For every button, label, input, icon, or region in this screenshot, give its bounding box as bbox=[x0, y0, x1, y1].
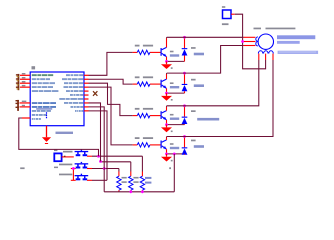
transistor Q1 labels bbox=[170, 51, 179, 57]
wire net SW1 bbox=[92, 155, 142, 157]
motor M1 left coil arcs bbox=[256, 37, 258, 46]
junction rail D3 bbox=[183, 104, 186, 107]
ground below IC bbox=[42, 126, 51, 144]
resistor R4 pin stubs bbox=[133, 144, 161, 146]
wire base route Q4 bbox=[89, 87, 133, 145]
diode D2 top stub bbox=[184, 73, 186, 84]
ground at Q1 emitter bbox=[161, 61, 172, 69]
IC U1 body bbox=[30, 72, 84, 126]
junction Q4 emitter bbox=[165, 153, 168, 156]
ground at Q3 emitter bbox=[161, 125, 172, 133]
wire emitter-diode Q3 bbox=[167, 124, 185, 126]
button SW2 bbox=[75, 162, 89, 169]
resistor R2 pin stubs bbox=[133, 83, 161, 85]
IC U1 left pin 3 bbox=[20, 82, 30, 84]
diode D1 bbox=[182, 48, 188, 55]
IC U1 left pin 2 bbox=[20, 78, 30, 80]
button SW1 right stub bbox=[87, 155, 92, 157]
wire collector Q1 bbox=[166, 37, 168, 47]
terminal input box bbox=[54, 153, 61, 161]
diode D4 bbox=[182, 147, 188, 154]
button SW2 stubs bbox=[71, 168, 92, 170]
connector J1 labels bbox=[22, 73, 26, 86]
motor M1 text block bbox=[277, 35, 318, 54]
resistor R2 bbox=[137, 82, 150, 86]
transistor Q4 bbox=[161, 140, 167, 149]
resistor R5 labels bbox=[122, 177, 127, 183]
label near ground Q3 bbox=[171, 131, 173, 133]
wire base route Q2 bbox=[89, 79, 133, 84]
resistor R7 bbox=[140, 176, 144, 190]
diode D4 bottom stub bbox=[184, 153, 186, 156]
resistor R7 bottom stub bbox=[141, 190, 143, 192]
resistor R4 bbox=[137, 143, 150, 147]
resistor R1 pin stubs bbox=[133, 51, 161, 53]
junction rail D1 bbox=[183, 36, 186, 39]
IC U1 right pin-name text bbox=[59, 74, 83, 112]
wire to resistor R5 top bbox=[118, 169, 120, 177]
wire emitter-diode Q2 bbox=[167, 92, 185, 94]
wire emitter Q1 bbox=[166, 57, 168, 62]
wire IC pin to net mid bbox=[89, 103, 101, 161]
button SW3 label bbox=[59, 174, 72, 176]
junction Q1 emitter bbox=[165, 60, 168, 63]
IC U1 reference label bbox=[32, 66, 36, 69]
junction Q2 emitter bbox=[165, 92, 168, 95]
terminal VCC labels bbox=[222, 6, 229, 25]
transistor Q1 bbox=[161, 47, 167, 56]
diode D3 labels bbox=[191, 110, 219, 120]
ground at Q2 emitter bbox=[161, 93, 172, 101]
transistor Q3 bbox=[161, 111, 167, 120]
terminal VCC bbox=[223, 10, 232, 19]
net label below IC bbox=[56, 132, 74, 134]
wire rail Q3 to motor pin C bbox=[167, 54, 259, 106]
IC U1 left pin 4 bbox=[20, 86, 30, 88]
wire emitter-diode Q1 bbox=[167, 60, 185, 62]
button SW2 label bbox=[59, 164, 72, 166]
motor M1 bottom coil arcs bbox=[258, 51, 273, 54]
junction Q4 emitter-rail bbox=[173, 153, 176, 156]
wire ground rail bbox=[104, 191, 174, 193]
resistor R5 bbox=[117, 176, 121, 190]
terminal input labels bbox=[54, 150, 58, 169]
diode D2 labels bbox=[191, 79, 204, 87]
wire Q4 emitter to ground rail bbox=[173, 154, 175, 192]
wire net SW2 bbox=[92, 168, 119, 170]
junction net mid bbox=[99, 160, 102, 163]
diode D1 top stub bbox=[184, 37, 186, 48]
diode D1 labels bbox=[191, 47, 204, 55]
wire to resistor R7 top bbox=[141, 156, 143, 176]
wire collector Q3 bbox=[166, 106, 168, 111]
wire rail Q4 to motor pin D bbox=[167, 54, 273, 137]
diode D3 top stub bbox=[184, 106, 186, 117]
IC U1 left pin osc1 bbox=[20, 102, 31, 104]
resistor R3 pin stubs bbox=[133, 115, 161, 117]
motor M1 labels bbox=[254, 28, 296, 30]
wire net mid bbox=[101, 161, 131, 163]
diode D3 bottom stub bbox=[184, 123, 186, 126]
connector J2 labels bbox=[22, 101, 27, 107]
transistor Q2 labels bbox=[170, 82, 179, 88]
junction VCC motor common bbox=[241, 40, 244, 43]
junction rail R6 bbox=[129, 190, 132, 193]
wire emitter-diode Q4 bbox=[167, 153, 185, 155]
resistor R6 bottom stub bbox=[130, 190, 132, 192]
IC U1 right pin 2 bbox=[84, 78, 89, 80]
IC U1 right pin 5 bbox=[84, 90, 89, 92]
wire rail Q2 to motor pin B bbox=[167, 46, 256, 74]
diode D4 top stub bbox=[184, 137, 186, 148]
diode D1 bottom stub bbox=[184, 56, 186, 62]
resistor R1 bbox=[137, 50, 150, 54]
resistor R3 bbox=[137, 113, 150, 117]
wire box to button1 bbox=[62, 156, 74, 157]
wire base route Q1 bbox=[89, 52, 133, 75]
resistor R2 labels bbox=[135, 76, 153, 78]
label near ground Q1 bbox=[171, 67, 173, 69]
transistor Q3 labels bbox=[170, 114, 179, 120]
resistor R1 labels bbox=[135, 45, 153, 47]
IC U1 left pin MCLR bbox=[22, 117, 30, 119]
wire net SW2 down bbox=[103, 169, 105, 192]
junction SW2 left bbox=[72, 167, 75, 170]
wire SW2-SW3 left link bbox=[72, 169, 74, 181]
resistor R3 labels bbox=[135, 108, 153, 110]
resistor R6 labels bbox=[133, 177, 138, 183]
ground at Q4 emitter bbox=[161, 154, 172, 162]
junction rail D2 bbox=[183, 72, 186, 75]
transistor Q2 bbox=[161, 79, 167, 88]
wire net SW3 bbox=[92, 179, 107, 181]
connector J1 (left bank) bbox=[16, 74, 19, 90]
IC U1 right pin 8 bbox=[84, 102, 89, 104]
wire IC pin to net SW2 bbox=[89, 107, 105, 169]
label near ground Q4 bbox=[171, 160, 173, 162]
diode D3 bbox=[182, 117, 188, 124]
motor M1 body bbox=[258, 34, 273, 49]
button SW1 bbox=[75, 150, 89, 157]
wire emitter Q4 bbox=[166, 149, 168, 154]
IC U1 right pin 3 bbox=[84, 82, 89, 84]
button SW3 stubs bbox=[71, 179, 92, 181]
wire VCC to motor common bbox=[231, 14, 266, 69]
resistor R7 labels bbox=[145, 177, 151, 184]
wire base route Q3 bbox=[89, 83, 133, 115]
stray label near Q4 bbox=[169, 167, 171, 169]
junction net SW2 bbox=[103, 167, 106, 170]
wire emitter Q3 bbox=[166, 120, 168, 125]
IC U1 right pin 1 bbox=[84, 74, 89, 76]
IC U1 left pin 1 bbox=[20, 74, 30, 76]
junction rail D4 bbox=[183, 135, 186, 138]
diode D2 bottom stub bbox=[184, 91, 186, 93]
button SW1 label bbox=[63, 151, 73, 153]
resistor R5 bottom stub bbox=[118, 190, 120, 192]
transistor Q4 labels bbox=[170, 143, 179, 149]
junction net SW1 bbox=[97, 155, 100, 158]
IC U1 right pin 7 bbox=[84, 98, 89, 100]
button SW3 bbox=[75, 174, 89, 181]
IC U1 right pin 4 bbox=[84, 86, 89, 88]
IC U1 right pin 6 bbox=[84, 94, 89, 96]
wire MCLR loop bbox=[19, 118, 99, 156]
IC U1 right pin 10 bbox=[84, 110, 89, 112]
stray label bottom-left bbox=[20, 167, 24, 169]
IC U1 right pin 9 bbox=[84, 106, 89, 108]
wire emitter Q2 bbox=[166, 88, 168, 93]
IC U1 left pin osc2 bbox=[20, 106, 31, 108]
wire collector Q2 bbox=[166, 73, 168, 79]
resistor R4 labels bbox=[135, 137, 153, 139]
diode D2 bbox=[182, 84, 188, 91]
connector J2 (left bank lower) bbox=[16, 100, 19, 111]
wire collector Q4 bbox=[166, 137, 168, 140]
junction Q3 emitter bbox=[165, 123, 168, 126]
IC U1 left pin-name text bbox=[32, 74, 59, 120]
wire rail Q1 to motor pin A bbox=[167, 36, 256, 38]
NC cross on IC pin bbox=[93, 91, 97, 96]
junction rail R7 bbox=[141, 190, 144, 193]
diode D4 labels bbox=[191, 140, 204, 148]
wire to resistor R6 top bbox=[130, 162, 132, 176]
resistor R6 bbox=[129, 176, 133, 190]
label near ground Q2 bbox=[171, 99, 173, 101]
wire IC pin to SW3 bbox=[89, 111, 108, 180]
